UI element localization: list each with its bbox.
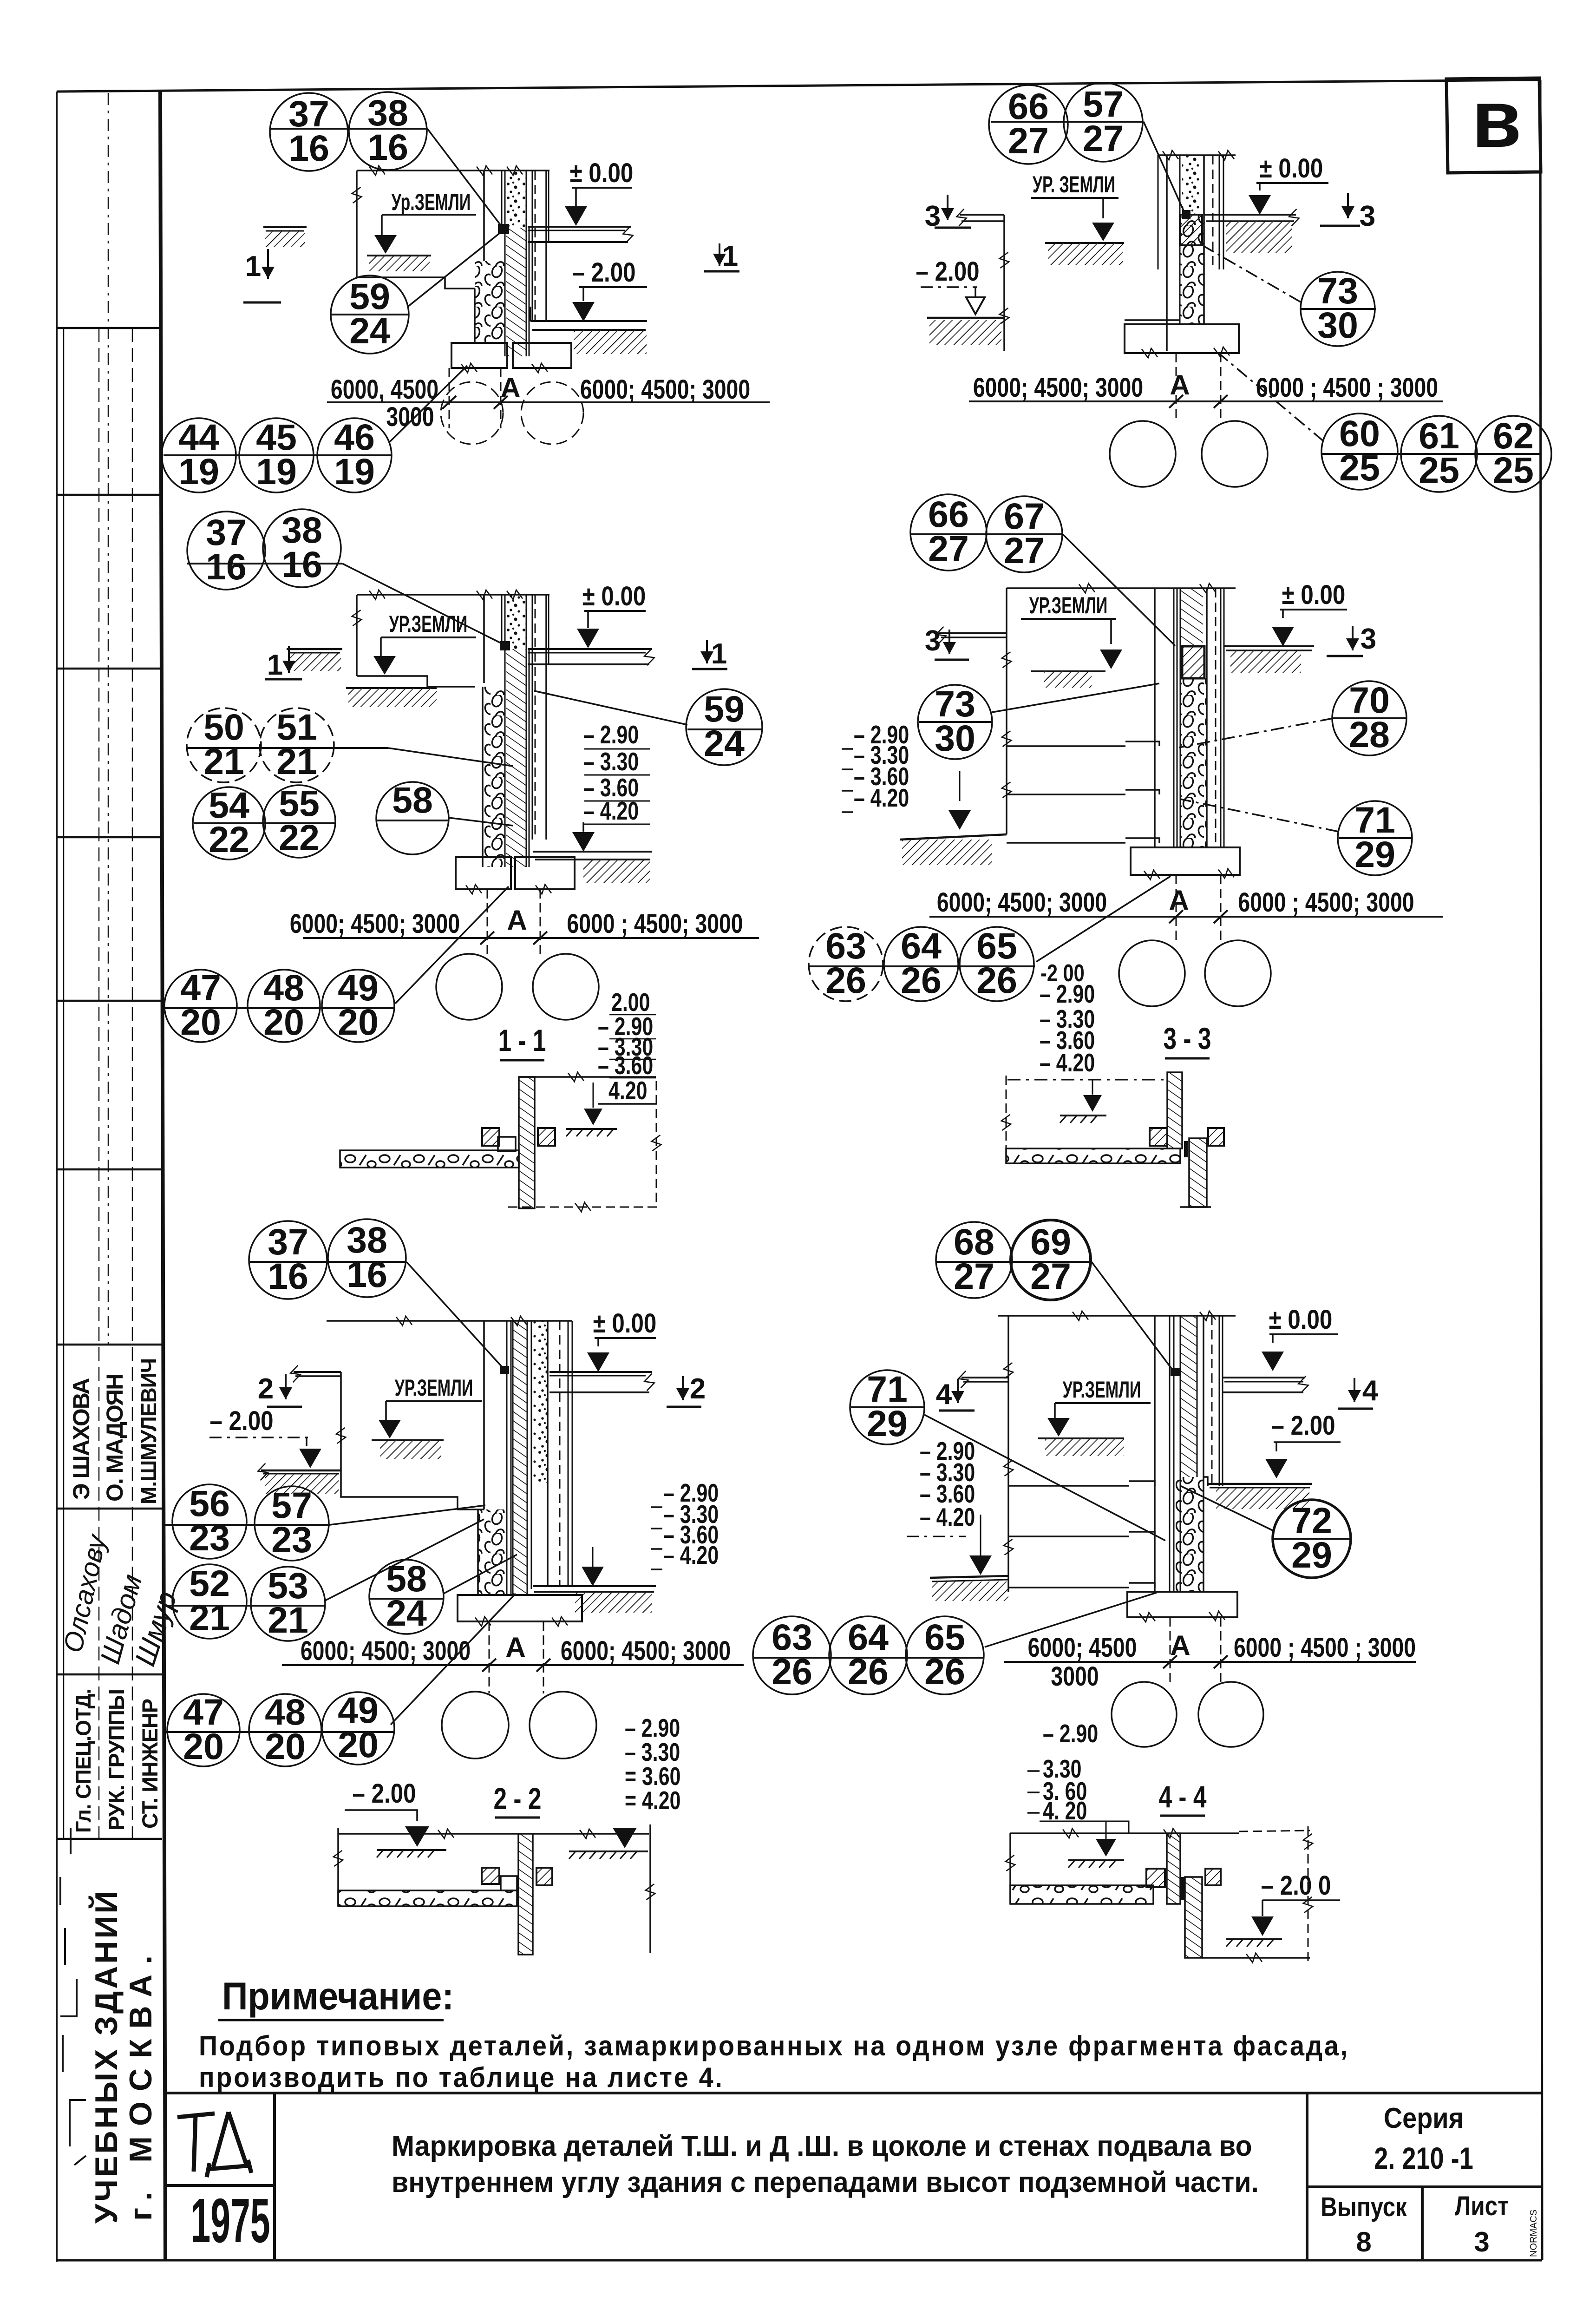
svg-text:6000; 4500; 3000: 6000; 4500; 3000 xyxy=(973,373,1143,403)
section 3-3 wall strip lower xyxy=(1189,1138,1207,1207)
svg-text:Э ШАХОВА: Э ШАХОВА xyxy=(68,1378,94,1500)
fig3 callout row fraction line xyxy=(187,563,342,564)
fig4 interior floor line 1 xyxy=(1007,745,1125,747)
fig1 callout 46/19 xyxy=(317,416,392,492)
svg-text:29: 29 xyxy=(1291,1534,1332,1575)
svg-text:= 4.20: = 4.20 xyxy=(625,1786,680,1815)
fig3 callout 55/22 xyxy=(263,782,335,858)
svg-text:± 0.00: ± 0.00 xyxy=(1260,153,1323,184)
svg-text:– 2.00: – 2.00 xyxy=(352,1778,416,1809)
svg-text:А: А xyxy=(1170,1630,1190,1661)
fig1 left outer ground line xyxy=(263,226,307,228)
svg-text:6000 ; 4500; 3000: 6000 ; 4500; 3000 xyxy=(1238,887,1414,918)
fig6 interior floor line 3 xyxy=(1008,1587,1129,1588)
fig2 foundation xyxy=(1125,324,1239,353)
fig6 inner lines right xyxy=(1211,1316,1213,1486)
section 2-2 level line right xyxy=(533,1833,649,1835)
title block TD box xyxy=(273,2093,276,2259)
svg-text:УР.ЗЕМЛИ: УР.ЗЕМЛИ xyxy=(1029,593,1108,619)
svg-text:М.ШМУЛЕВИЧ: М.ШМУЛЕВИЧ xyxy=(137,1358,161,1504)
svg-text:± 0.00: ± 0.00 xyxy=(570,158,634,188)
left strip signature 2 xyxy=(94,1571,148,1667)
fig2 leader 73 to wall xyxy=(1204,246,1301,302)
fig1 wall top break line xyxy=(357,170,549,171)
svg-text:19: 19 xyxy=(256,451,297,492)
fig3 building outline bottom xyxy=(357,676,475,687)
fig4 callout 67/27 xyxy=(986,495,1062,572)
fig5 basement pebble wall xyxy=(478,1509,507,1595)
fig2 callout 62/25 xyxy=(1475,415,1551,492)
left strip divider 6 xyxy=(57,1344,162,1346)
fig5 callout 49/20 xyxy=(322,1689,394,1765)
fig2 leader to wall node xyxy=(1144,122,1185,215)
section 4-4 left boundary xyxy=(1009,1833,1011,1904)
fig6 leader 71 to wall xyxy=(924,1415,1165,1541)
section 1-1 step block xyxy=(498,1137,516,1151)
svg-text:21: 21 xyxy=(203,741,244,782)
section 3-3 right square xyxy=(1208,1128,1224,1146)
left strip divider 0 xyxy=(57,327,162,329)
svg-text:16: 16 xyxy=(288,127,329,169)
fig2 wall face lines xyxy=(1158,155,1159,269)
fig4 wall hydro band upper xyxy=(1180,588,1203,646)
fig1 callout 59/24 xyxy=(331,276,409,354)
page letter box xyxy=(1446,78,1541,173)
svg-text:2 - 2: 2 - 2 xyxy=(494,1781,542,1816)
svg-text:6000 ; 4500 ; 3000: 6000 ; 4500 ; 3000 xyxy=(1234,1633,1416,1663)
fig2 black junction rect outline xyxy=(1180,215,1202,245)
fig5 left outer ground line xyxy=(261,1470,341,1472)
fig3 callout 51/21 xyxy=(260,706,334,782)
fig5 callout 37/16 xyxy=(249,1221,327,1299)
fig3 row 47-49 fraction line xyxy=(164,1007,395,1009)
fig3 left outer ground line xyxy=(287,648,342,650)
section 1-1 bottom dashed line xyxy=(508,1207,658,1208)
svg-text:2: 2 xyxy=(690,1373,706,1405)
fig4 left outer ground line sloped xyxy=(900,834,1007,840)
fig5 inner lines right xyxy=(559,1321,561,1586)
fig4 pit left boundary xyxy=(1006,588,1007,834)
svg-text:УР.ЗЕМЛИ: УР.ЗЕМЛИ xyxy=(389,611,468,637)
svg-text:± 0.00: ± 0.00 xyxy=(1269,1305,1333,1335)
fig1 basement slab at -2.00 xyxy=(530,320,647,322)
fig1 callout 44/19 xyxy=(162,416,236,492)
svg-text:Подбор типовых деталей, замарк: Подбор типовых деталей, замаркированных … xyxy=(199,2031,1349,2061)
fig3 wall band edges xyxy=(526,595,527,867)
drawing frame right border xyxy=(1540,80,1542,2260)
svg-text:О. МАДОЯН: О. МАДОЯН xyxy=(102,1374,128,1502)
svg-text:– 4.20: – 4.20 xyxy=(920,1503,975,1531)
section 4-4 top line dashed right xyxy=(1239,1831,1310,1831)
svg-text:4 - 4: 4 - 4 xyxy=(1159,1779,1207,1814)
TD logo xyxy=(177,2112,251,2177)
left strip divider 9 xyxy=(57,1838,162,1840)
fig1 cokol panel speckled band xyxy=(506,171,526,227)
svg-text:30: 30 xyxy=(935,717,975,759)
fig5 row 37-38 fraction line xyxy=(250,1261,406,1263)
left strip divider 4 xyxy=(57,1000,162,1002)
fig1 leader foundation to callout 46 xyxy=(389,366,467,442)
svg-text:А: А xyxy=(505,1632,525,1663)
fig4 interior floor line 3 xyxy=(1007,842,1125,844)
fig1 callout 37/16 xyxy=(270,93,348,171)
fig6 row 63-65 fraction line xyxy=(753,1657,984,1659)
left strip column line c xyxy=(132,328,133,1839)
fig5 axis circle 1 xyxy=(442,1692,509,1759)
svg-text:– 3.60: – 3.60 xyxy=(598,1051,653,1080)
fig3 axis circle 2 xyxy=(533,954,599,1020)
fig3 dimension line xyxy=(303,937,759,939)
fig2 wall band below ground - pebbles xyxy=(1180,215,1204,324)
fig4 callout 70/28 xyxy=(1332,679,1406,755)
svg-text:27: 27 xyxy=(1008,120,1049,161)
fig3 right soil hatch xyxy=(583,860,650,883)
fig3 leader 49 to foundation xyxy=(395,886,509,1004)
section 3-3 floor slab xyxy=(1006,1148,1180,1163)
svg-text:24: 24 xyxy=(349,310,390,351)
svg-text:16: 16 xyxy=(347,1253,387,1295)
fig1 callout row 44-46 fraction line xyxy=(164,454,392,456)
svg-text:3: 3 xyxy=(925,625,941,657)
fig2 left outer soil hatch xyxy=(929,320,1001,345)
section 4-4 top line xyxy=(1010,1832,1239,1834)
fig4 axis circle 1 xyxy=(1119,940,1185,1006)
fig5 leader 53 to wall xyxy=(325,1519,484,1601)
fig1 ur zemli arrow xyxy=(381,215,383,240)
fig4 wall band edges xyxy=(1180,588,1181,847)
svg-text:20: 20 xyxy=(338,1724,379,1765)
left strip signature 1 xyxy=(58,1531,112,1655)
fig5 floor slab at 0.00 xyxy=(549,1371,652,1373)
fig3 axis line 2 xyxy=(540,889,541,956)
svg-text:21: 21 xyxy=(276,741,317,782)
svg-text:58: 58 xyxy=(392,779,433,820)
fig6 right soil hatch xyxy=(1216,1488,1309,1509)
fig5 wall speckle band right xyxy=(533,1321,548,1483)
fig5 wall node dot xyxy=(500,1366,509,1374)
note heading underline xyxy=(218,2019,444,2021)
fig4 callout 63/26 xyxy=(809,925,883,1001)
fig3 callout 48/20 xyxy=(248,967,320,1043)
svg-text:– 2.90: – 2.90 xyxy=(1040,980,1095,1008)
fig1 building outline bottom with step xyxy=(357,277,475,289)
svg-text:производить по таблице на ли: производить по таблице на листе 4. xyxy=(199,2062,724,2093)
svg-text:± 0.00: ± 0.00 xyxy=(593,1308,657,1339)
svg-text:Лист: Лист xyxy=(1455,2191,1509,2221)
svg-text:19: 19 xyxy=(178,451,219,492)
fig3 callout 58 xyxy=(376,779,449,854)
fig3 wall outer face line xyxy=(483,595,485,683)
fig4 leader 65 to foundation xyxy=(1036,876,1171,962)
fig2 callout 57/27 xyxy=(1064,83,1143,162)
fig6 leader 65 to foundation xyxy=(985,1593,1157,1647)
fig3 wall top break line xyxy=(357,594,549,596)
fig2 wall node dark patch xyxy=(1182,210,1190,219)
fig2 inner ground hatch xyxy=(1045,242,1124,244)
fig5 row 52-53 fraction line xyxy=(164,1605,325,1607)
fig1 axis line 2 xyxy=(500,368,502,428)
fig4 foundation xyxy=(1131,847,1240,875)
fig1 callout row 37-38 fraction line xyxy=(270,128,428,130)
section 2-2 right triangle xyxy=(613,1828,637,1848)
svg-text:4.20: 4.20 xyxy=(608,1076,647,1105)
section 1-1 level arrow xyxy=(593,1083,594,1108)
fig6 dash line at -4.20 left xyxy=(907,1536,966,1537)
svg-text:3 - 3: 3 - 3 xyxy=(1164,1021,1211,1056)
fig6 interior floor line 2 xyxy=(1008,1536,1129,1537)
fig5 wall hydro band xyxy=(513,1321,527,1595)
left strip thick divider xyxy=(160,92,165,2260)
fig6 callout 72/29 xyxy=(1273,1500,1351,1578)
fig6 callout 68/27 xyxy=(936,1221,1012,1298)
svg-text:6000; 4500; 3000: 6000; 4500; 3000 xyxy=(580,374,750,405)
fig3 callout 59/24 xyxy=(686,688,762,765)
left strip divider 3 xyxy=(57,836,162,839)
fig3 leader 58 to wall xyxy=(449,818,513,826)
fig3 foundation left block xyxy=(456,857,511,889)
section 4-4 level arrow xyxy=(1105,1821,1107,1839)
fig1 axis circle 1 xyxy=(441,382,503,444)
fig3 basement pebble wall xyxy=(483,687,505,867)
fig4 row 63-65 fraction line xyxy=(809,965,1035,967)
fig6 left outer soil hatch xyxy=(932,1581,1008,1601)
left strip divider 2 xyxy=(57,668,162,670)
svg-text:6000; 4500: 6000; 4500 xyxy=(1028,1633,1137,1663)
svg-text:29: 29 xyxy=(867,1403,908,1444)
fig2 wall top break line xyxy=(1158,154,1236,156)
fig4 callout 71/29 xyxy=(1338,799,1412,875)
section 4-4 bottom line right xyxy=(1202,1957,1310,1959)
fig5 left outer soil hatch xyxy=(265,1474,339,1494)
fig2 pit left boundary xyxy=(1003,215,1005,351)
fig4 callout 73/30 xyxy=(918,683,992,759)
fig5 callout 47/20 xyxy=(167,1691,240,1767)
svg-text:Примечание:: Примечание: xyxy=(222,1975,454,2018)
svg-text:СТ. ИНЖЕНР: СТ. ИНЖЕНР xyxy=(137,1699,162,1829)
svg-text:– 4.20: – 4.20 xyxy=(1040,1049,1095,1077)
fig3 wall hydro band xyxy=(506,649,526,867)
section 2-2 level line left xyxy=(338,1833,520,1835)
fig1 axis circle 2 xyxy=(521,382,583,444)
fig6 callout 64/26 xyxy=(829,1616,907,1694)
fig4 wall pebble band lower xyxy=(1180,678,1207,847)
fig5 callout 52/21 xyxy=(172,1562,247,1639)
fig5 leader 49 to foundation xyxy=(391,1594,516,1725)
fig6 interior floor line 1 xyxy=(1008,1485,1129,1487)
section 4-4 left square xyxy=(1146,1869,1165,1887)
fig1 dimension line xyxy=(327,401,770,403)
section 4-4 bracket thick xyxy=(1181,1877,1185,1900)
fig5 axis line 2 xyxy=(543,1621,544,1693)
fig2 left outer ground line xyxy=(927,317,1004,319)
fig4 callout 65/26 xyxy=(960,925,1034,1001)
fig5 ur zemli arrow xyxy=(385,1401,387,1421)
fig3 left outer soil hatch xyxy=(289,653,341,671)
svg-text:– 4.20: – 4.20 xyxy=(663,1541,719,1569)
series box divider vertical xyxy=(1306,2093,1308,2259)
fig2 dimension line xyxy=(969,400,1443,402)
svg-text:19: 19 xyxy=(334,451,375,492)
svg-text:29: 29 xyxy=(1354,833,1395,875)
svg-text:3: 3 xyxy=(1360,200,1375,232)
fig3 floor slab at 0.00 xyxy=(528,648,652,650)
svg-text:3000: 3000 xyxy=(386,402,434,432)
fig6 wall hydro band xyxy=(1180,1316,1197,1477)
section 2-2 left boundary xyxy=(337,1828,339,1906)
fig4 interior floor line 2 xyxy=(1007,794,1125,795)
section 4-4 right square xyxy=(1205,1869,1221,1885)
svg-text:1: 1 xyxy=(267,649,283,681)
section 3-3 left boundary dashed xyxy=(1006,1076,1007,1163)
fig3 wall node dot xyxy=(500,641,510,650)
left strip divider 7 xyxy=(57,1508,162,1510)
left strip signature 3 xyxy=(129,1588,183,1670)
svg-text:А: А xyxy=(507,905,527,936)
fig5 leader 57 to wall xyxy=(330,1505,485,1525)
section 4-4 floor slab xyxy=(1010,1885,1153,1904)
fig1 wall outer face line xyxy=(483,171,485,261)
left strip divider 8 xyxy=(57,1673,162,1676)
fig2 axis line 1 xyxy=(1176,353,1177,421)
left strip column line b xyxy=(98,328,100,1839)
fig2 cokol band speckled xyxy=(1182,155,1200,215)
fig6 row 68-69 fraction line xyxy=(936,1261,1092,1263)
svg-text:28: 28 xyxy=(1349,714,1390,755)
section 4-4 right boundary dashed xyxy=(1308,1826,1309,1961)
fig4 dimension line xyxy=(929,916,1443,918)
fig5 wall top break line xyxy=(327,1320,572,1322)
fig5 callout 38/16 xyxy=(328,1219,406,1297)
svg-text:УЧЕБНЫХ ЗДАНИЙ: УЧЕБНЫХ ЗДАНИЙ xyxy=(88,1889,124,2224)
svg-text:1 - 1: 1 - 1 xyxy=(498,1023,546,1058)
svg-text:8: 8 xyxy=(1356,2226,1371,2257)
fig4 wall face lines xyxy=(1154,588,1156,847)
fig1 callout 45/19 xyxy=(239,416,314,492)
svg-text:23: 23 xyxy=(189,1517,230,1558)
fig1 left outer soil hatch xyxy=(265,231,305,247)
fig2 ur zemli bracket arrow xyxy=(1103,198,1119,218)
fig5 right soil hatch xyxy=(575,1592,652,1613)
fig2 right ground line at 0.00 xyxy=(1204,214,1296,216)
fig1 wall node dot xyxy=(498,224,509,234)
svg-text:6000, 4500: 6000, 4500 xyxy=(331,374,438,405)
fig3 row 54-55 fraction line xyxy=(194,822,335,824)
fig6 axis line 2 xyxy=(1220,1617,1222,1685)
fig3 axis circle 1 xyxy=(436,954,502,1020)
svg-text:± 0.00: ± 0.00 xyxy=(1282,580,1346,610)
fig5 axis ticks xyxy=(482,1659,496,1672)
fig5 callout 57/23 xyxy=(255,1484,329,1561)
fig3 callout 50/21 xyxy=(187,706,261,782)
svg-text:± 0.00: ± 0.00 xyxy=(582,581,646,611)
fig3 callout 37/16 xyxy=(187,512,265,590)
fig2 axis ticks xyxy=(1169,395,1183,408)
fig2 leader 60 to foundation xyxy=(1217,352,1324,441)
fig5 row 56-57 fraction line xyxy=(164,1524,330,1526)
section 1-1 top line xyxy=(519,1076,656,1078)
fig5 wall face lines xyxy=(483,1321,485,1509)
svg-text:21: 21 xyxy=(189,1597,230,1638)
section 3-3 left square xyxy=(1150,1128,1167,1146)
fig6 left outer ground line sloped xyxy=(930,1576,1008,1578)
fig2 callout row 66-57 fraction line xyxy=(991,121,1144,123)
fig5 callout 58/24 xyxy=(369,1558,444,1634)
svg-text:27: 27 xyxy=(1004,530,1045,571)
svg-text:Выпуск: Выпуск xyxy=(1321,2192,1407,2222)
svg-text:30: 30 xyxy=(1317,304,1358,346)
title block top line xyxy=(165,2092,1541,2094)
fig6 left slab stub xyxy=(962,1377,1008,1378)
fig6 foundation xyxy=(1127,1592,1237,1617)
fig4 inner ground hatch xyxy=(1031,670,1105,672)
fig5 axis line 1 xyxy=(489,1621,490,1693)
fig5 dimension line xyxy=(282,1664,744,1666)
fig6 axis ticks xyxy=(1163,1655,1177,1668)
fig5 pit outline xyxy=(341,1372,484,1509)
svg-text:УР.ЗЕМЛИ: УР.ЗЕМЛИ xyxy=(395,1375,473,1401)
fig5 callout 48/20 xyxy=(249,1691,321,1767)
svg-text:– 2.00: – 2.00 xyxy=(572,257,635,288)
fig3 basement slab at -4.20 right xyxy=(533,851,652,853)
fig2 basement floor bracket xyxy=(1125,319,1180,321)
section 2-2 right square xyxy=(536,1868,552,1885)
fig5 inner ground hatch xyxy=(372,1439,444,1441)
fig1 axis ticks xyxy=(442,396,456,409)
section 2-2 wall strip xyxy=(518,1834,533,1955)
svg-text:1: 1 xyxy=(711,638,727,670)
svg-text:3: 3 xyxy=(1474,2226,1489,2257)
fig4 axis ticks xyxy=(1169,910,1183,923)
fig2 axis circle 1 xyxy=(1110,421,1176,487)
fig5 callout 53/21 xyxy=(251,1565,325,1641)
fig1 foundation left block xyxy=(451,343,507,368)
fig3 triangle at -4.20 xyxy=(582,822,584,832)
fig6 inner ground hatch xyxy=(1038,1437,1124,1439)
svg-text:2: 2 xyxy=(258,1373,274,1405)
section 2-2 right boundary xyxy=(649,1824,651,1953)
section 2-2 left square xyxy=(482,1868,499,1884)
fig6 callout 65/26 xyxy=(906,1616,984,1694)
fig6 wall node dot xyxy=(1171,1368,1180,1376)
fig4 right soil hatch xyxy=(1230,650,1301,673)
svg-text:– 2.00: – 2.00 xyxy=(209,1406,273,1436)
fig3 callout 54/22 xyxy=(193,784,265,860)
svg-text:4: 4 xyxy=(1362,1375,1379,1407)
section 1-1 wall strip xyxy=(519,1077,535,1208)
fig1 wall line pair xyxy=(501,171,503,228)
svg-text:г. МОСКВА.: г. МОСКВА. xyxy=(123,1945,158,2221)
fig3 leader 59 to wall xyxy=(534,691,687,725)
svg-text:1: 1 xyxy=(245,250,261,282)
fig4 axis line 1 xyxy=(1176,875,1177,942)
fig4 right ground line xyxy=(1224,645,1314,647)
svg-text:NORMACS: NORMACS xyxy=(1529,2210,1539,2257)
fig6 ur zemli arrow xyxy=(1054,1403,1056,1419)
fig4 callout 64/26 xyxy=(884,925,958,1001)
fig3 callout 49/20 xyxy=(322,967,394,1043)
fig5 callout 56/23 xyxy=(172,1483,247,1559)
section 1-1 floor slab xyxy=(340,1150,519,1168)
fig6 pit left boundary xyxy=(1007,1316,1009,1592)
svg-text:внутреннем углу здания с пе: внутреннем углу здания с перепадами высо… xyxy=(392,2166,1259,2198)
section 1-1 right boundary dashed xyxy=(656,1081,657,1207)
fig1 foundation right block xyxy=(513,343,571,368)
fig6 axis line 1 xyxy=(1170,1617,1171,1685)
fig3 callout 38/16 xyxy=(263,509,341,587)
fig2 callout row 60-62 fraction line xyxy=(1321,453,1540,455)
fig6 wall top break line xyxy=(998,1315,1236,1317)
section 1-1 left square xyxy=(482,1128,499,1146)
